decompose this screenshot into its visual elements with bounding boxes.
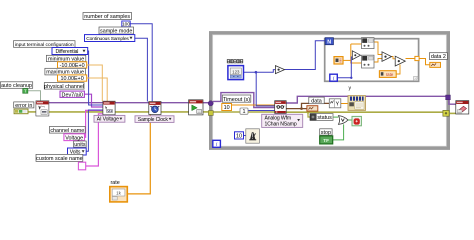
label: samples to read (chinese) <box>227 60 243 63</box>
wire: task purple create->aivolt <box>49 102 103 104</box>
dropdown: Volts <box>68 148 87 155</box>
for loop: B2 out to T2 <box>374 59 382 63</box>
label: stop <box>320 129 332 136</box>
svg-text:100: 100 <box>122 21 130 27</box>
terminal: while loop iteration i <box>213 140 221 148</box>
svg-text:Timeout (s): Timeout (s) <box>223 97 250 103</box>
wire: task purple aivolt->clock <box>115 102 149 104</box>
node: T1 small triangle <box>352 51 360 60</box>
wire: units blue <box>86 110 103 151</box>
svg-text:10: 10 <box>236 134 242 140</box>
wire: physical channel violet <box>84 94 103 107</box>
wire: task purple start->loop tunnel <box>203 102 209 104</box>
vi: DAQmx Create Task <box>36 101 49 116</box>
wire: sample mode blue <box>135 38 148 101</box>
wire: error olive clock->start <box>161 111 189 113</box>
label: data 2 <box>429 53 447 61</box>
dropdown: Sample Clock <box>135 116 174 123</box>
svg-text:data 2: data 2 <box>431 54 446 60</box>
wire: task purple tunnel->clear <box>449 100 456 104</box>
constant: 10.00E+0 <box>58 75 87 82</box>
wire: increment to N blue <box>285 41 326 70</box>
svg-text:Voltage: Voltage <box>65 135 83 141</box>
node: T2 triangle multiply <box>382 52 392 62</box>
wire: task purple read->right tunnel <box>286 96 445 103</box>
dropdown: Differential <box>52 48 88 55</box>
svg-text:N: N <box>327 40 331 46</box>
wire: wait ms blue <box>244 135 246 137</box>
junction: error/status <box>307 111 310 114</box>
wire: stop TF to OR <box>333 124 344 139</box>
node: wait until next ms multiple <box>246 129 260 143</box>
svg-text:physical channel: physical channel <box>44 84 84 90</box>
wire: Y out to spectrum icon orange <box>341 103 348 105</box>
terminal: loop conditional stop <box>352 116 361 125</box>
constant: -10.00E+0 <box>58 62 87 69</box>
svg-text:10.00E+0: 10.00E+0 <box>60 76 83 82</box>
terminal: rate control <box>110 187 128 202</box>
wire: OR to conditional <box>348 119 352 121</box>
tunnel: error left <box>208 111 213 116</box>
vi: DAQmx Timing Sample Clock <box>149 102 161 115</box>
svg-text:1Chan NSamp: 1Chan NSamp <box>265 122 297 128</box>
svg-text:error in: error in <box>15 103 32 109</box>
wire: samples branch down to read <box>256 72 275 106</box>
terminal: stop TF <box>320 136 333 144</box>
node: B1 build/index <box>362 38 375 49</box>
wire: rate orange <box>127 115 150 194</box>
label: number of samples <box>83 13 132 21</box>
wire: tunnel to data 2 <box>419 59 430 65</box>
wire: input terminal configuration blue <box>88 51 103 105</box>
terminal: data 2 indicator <box>430 62 441 67</box>
terminal: for loop iteration i <box>330 74 338 82</box>
wire: error branch to status unbundle <box>308 112 310 117</box>
constant: error cluster <box>14 109 28 114</box>
wire: error olive start->tunnel <box>203 111 209 113</box>
label: data <box>309 97 324 104</box>
svg-text:rate: rate <box>386 72 394 77</box>
for loop: B1 out to T2 <box>374 42 382 55</box>
wire: samples to read blue <box>244 70 276 73</box>
constant: empty scale string <box>78 162 85 170</box>
for loop: T3 out to tunnel <box>406 58 416 60</box>
svg-text:Continuous Samples: Continuous Samples <box>86 36 129 42</box>
svg-text:y: y <box>349 86 352 92</box>
svg-text:number of samples: number of samples <box>84 14 130 20</box>
svg-text:10: 10 <box>224 105 230 111</box>
node: get waveform components Y <box>329 99 341 108</box>
label: auto cleanup <box>0 82 32 89</box>
node: T3 triangle divide <box>395 56 405 66</box>
node: unbundle status <box>310 114 333 122</box>
node: spectrum subvi icon <box>348 96 366 111</box>
wire: minimum value orange <box>87 65 103 101</box>
wire: error olive tunnel->clear <box>449 112 456 114</box>
while loop border inner shade <box>213 35 447 146</box>
wire: task purple inside loop to read <box>213 93 275 108</box>
wire: waveform to Y unbundle <box>302 103 330 108</box>
while loop border <box>211 33 449 148</box>
svg-text:custom scale name: custom scale name <box>36 156 82 162</box>
svg-text:sample mode: sample mode <box>100 29 132 35</box>
wire: task purple clock->start <box>161 102 189 104</box>
constant: 10 wait <box>235 132 244 140</box>
tunnel: error right <box>443 110 449 116</box>
junction: i wire <box>350 77 352 79</box>
for loop: rate# to T3 <box>396 65 400 75</box>
dropdown: Continuous Samples <box>85 35 135 42</box>
local variable: rate# <box>379 71 396 78</box>
wire: error olive read->right tunnel <box>286 111 443 113</box>
label: minimum value <box>46 55 85 62</box>
svg-text:data: data <box>311 99 322 105</box>
wire: timeout orange <box>232 104 275 106</box>
svg-text:1: 1 <box>243 109 246 115</box>
wire: constant 1 to read <box>248 110 275 112</box>
svg-text:Dev7/ai0: Dev7/ai0 <box>62 92 83 98</box>
svg-text:units: units <box>74 142 86 148</box>
wire: custom scale name pink <box>86 114 103 166</box>
label: units <box>74 141 87 148</box>
node: increment triangle <box>275 66 284 74</box>
dropdown: AI Voltage <box>94 115 125 122</box>
wire: error olive aivolt->clock <box>115 111 149 113</box>
svg-text:T: T <box>24 88 27 93</box>
svg-text:Y: Y <box>336 102 340 108</box>
constant: 10 timeout <box>222 104 232 112</box>
wire: error olive create->aivolt <box>49 111 103 113</box>
svg-text:123: 123 <box>232 69 240 74</box>
constant: 1 <box>240 108 248 115</box>
wire: waveform data brown read->chart <box>286 108 307 110</box>
vi: DAQmx Read <box>275 101 287 114</box>
terminal: for loop count N <box>325 38 333 46</box>
label: sample mode <box>99 27 134 35</box>
local variable: rate (left) <box>334 57 343 64</box>
svg-text:AI Voltage: AI Voltage <box>97 117 119 123</box>
constant: 100 <box>122 21 131 27</box>
constant: T boolean <box>23 88 28 93</box>
label: error in <box>14 102 34 109</box>
constant: Voltage string <box>64 134 85 142</box>
node: OR gate <box>339 116 349 125</box>
for loop: orange feed to B1 <box>351 43 362 45</box>
svg-text:Differential: Differential <box>56 49 79 55</box>
svg-text:status: status <box>317 115 332 121</box>
label: input terminal configuration <box>14 41 76 48</box>
wire: error olive errin->create <box>27 111 36 113</box>
junction: samples <box>255 71 258 74</box>
label: Timeout (s) <box>222 95 251 103</box>
terminal: data waveform chart <box>307 106 318 111</box>
junction: data <box>300 107 303 110</box>
vi: DAQmx Start Task <box>189 100 203 115</box>
svg-text:TF: TF <box>323 138 329 144</box>
vi: DAQmx Create Channel AI Voltage <box>103 101 115 115</box>
vi: DAQmx Clear Task <box>456 101 469 114</box>
for loop: i wire blue <box>337 57 352 78</box>
wire: maximum value orange <box>87 78 108 101</box>
tunnel: for loop indexing out <box>415 56 419 60</box>
for loop: T2 out to T3 <box>392 57 396 59</box>
wire: channel name string pink <box>85 110 103 137</box>
dropdown: Analog Wfm 1Chan NSamp <box>262 114 303 127</box>
svg-text:rate: rate <box>111 180 120 186</box>
node: B2 build/index <box>362 55 375 68</box>
svg-text:channel name: channel name <box>50 128 84 134</box>
label: custom scale name <box>36 154 83 162</box>
for loop: vertical orange feed <box>351 44 362 63</box>
wire: auto cleanup boolean <box>28 91 41 101</box>
wire: number of samples blue <box>130 24 152 102</box>
svg-text:Sample Clock: Sample Clock <box>138 117 169 123</box>
wire: error olive inside loop to read <box>213 111 275 113</box>
wire: status to OR <box>333 116 338 118</box>
label: maximum value <box>45 68 86 75</box>
svg-text:1k: 1k <box>116 191 121 196</box>
tunnel: task left <box>208 101 213 106</box>
label: physical channel <box>44 83 84 90</box>
tunnel: task right <box>446 95 451 100</box>
for loop border <box>325 39 419 82</box>
terminal: samples to read control <box>228 66 244 80</box>
for loop: wire local rate to vertical <box>343 59 351 61</box>
label: channel name <box>49 127 85 134</box>
svg-text:stop: stop <box>321 130 331 136</box>
for loop resize handle <box>414 77 419 81</box>
constant: Dev7/ai0 <box>60 91 84 98</box>
